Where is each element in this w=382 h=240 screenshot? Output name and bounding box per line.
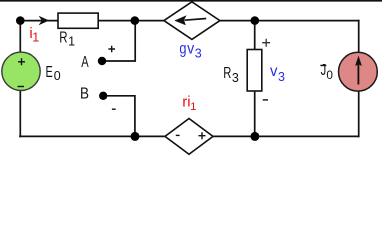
svg-text:3: 3 (195, 47, 202, 61)
svg-text:A: A (81, 54, 89, 71)
svg-text:v: v (270, 63, 278, 80)
svg-text:3: 3 (232, 71, 239, 85)
svg-text:0: 0 (54, 69, 61, 83)
svg-text:B: B (80, 85, 89, 102)
svg-text:R: R (223, 65, 231, 82)
svg-text:1: 1 (68, 34, 75, 48)
svg-text:E: E (46, 64, 53, 81)
svg-text:v: v (187, 40, 194, 57)
svg-text:1: 1 (190, 101, 196, 113)
svg-text:J: J (321, 62, 327, 79)
svg-text:1: 1 (32, 30, 39, 44)
svg-text:0: 0 (326, 68, 333, 82)
svg-text:R: R (59, 30, 67, 47)
svg-text:g: g (179, 40, 186, 57)
svg-text:3: 3 (278, 70, 285, 84)
